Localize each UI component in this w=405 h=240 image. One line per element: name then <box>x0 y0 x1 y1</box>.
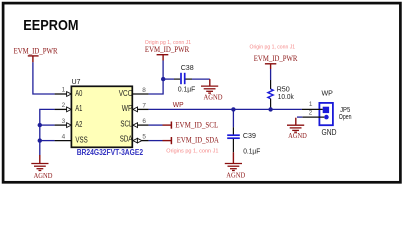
border frame <box>3 3 400 182</box>
svg-text:Origins pg 1, conn J1: Origins pg 1, conn J1 <box>166 149 218 155</box>
wire power to R50 <box>270 69 272 80</box>
svg-text:SCL: SCL <box>120 120 132 129</box>
wire pin4 to rail <box>40 140 55 142</box>
pin 1 A0 stub <box>55 87 83 98</box>
svg-text:WP: WP <box>322 88 333 97</box>
svg-text:EVM_ID_PWR: EVM_ID_PWR <box>145 45 190 54</box>
svg-text:0.1µF: 0.1µF <box>243 147 261 156</box>
svg-text:WP: WP <box>173 100 184 109</box>
svg-text:Open: Open <box>339 112 352 121</box>
power symbol EVM_ID_PWR (left) <box>28 56 39 62</box>
svg-text:1: 1 <box>62 87 66 94</box>
svg-text:EVM_ID_SCL: EVM_ID_SCL <box>175 121 218 130</box>
wire junction to C38 <box>163 78 174 80</box>
wire WP net (pin7 to JP5) <box>149 108 302 110</box>
wire power down / pin8 VCC <box>149 61 164 95</box>
wire power to pin1 A0 <box>33 62 55 94</box>
ground AGND (C39) <box>232 152 234 163</box>
svg-text:5: 5 <box>142 134 146 141</box>
wire junction to C39 <box>232 109 234 127</box>
svg-text:A1: A1 <box>75 104 82 113</box>
pin 4 VSS stub <box>55 133 88 144</box>
node junction pin4 rail <box>38 138 42 142</box>
svg-text:SDA: SDA <box>120 134 133 143</box>
svg-text:EVM_ID_PWR: EVM_ID_PWR <box>254 54 298 63</box>
svg-text:C38: C38 <box>181 63 194 72</box>
svg-text:3: 3 <box>62 118 66 125</box>
svg-text:BR24G32FVT-3AGE2: BR24G32FVT-3AGE2 <box>77 148 144 157</box>
svg-text:AGND: AGND <box>34 172 53 180</box>
offpage connector EVM_ID_SCL <box>149 121 219 130</box>
resistor R50 <box>268 80 294 109</box>
svg-text:1: 1 <box>309 101 313 108</box>
svg-text:EEPROM: EEPROM <box>23 17 78 34</box>
pin 2 A1 stub <box>55 102 83 113</box>
pin 3 A2 stub <box>55 118 83 129</box>
svg-text:Origin pg 1, conn J1: Origin pg 1, conn J1 <box>250 45 296 51</box>
node junction C38 tap <box>161 77 165 81</box>
pin 7 WP stub <box>122 103 149 114</box>
svg-text:10.0k: 10.0k <box>278 92 294 101</box>
svg-text:6: 6 <box>142 118 146 125</box>
svg-text:0.1µF: 0.1µF <box>178 84 196 93</box>
svg-text:AGND: AGND <box>204 94 223 102</box>
svg-text:2: 2 <box>62 102 66 109</box>
connector JP5 <box>319 88 351 137</box>
svg-text:C39: C39 <box>243 131 256 140</box>
svg-text:GND: GND <box>322 127 337 137</box>
capacitor C39 <box>227 127 261 156</box>
pin 1 lead JP5 <box>302 101 323 109</box>
svg-text:U7: U7 <box>72 79 81 86</box>
svg-text:VSS: VSS <box>75 135 87 144</box>
wire pin2 to ground rail <box>40 109 55 155</box>
power symbol EVM_ID_PWR (right) <box>265 64 276 69</box>
capacitor C38 <box>174 63 196 93</box>
svg-text:VCC: VCC <box>119 89 133 98</box>
svg-text:AGND: AGND <box>288 132 307 140</box>
wire pin3 to rail <box>40 124 55 126</box>
pin 5 SDA stub (bidirectional) <box>120 134 149 144</box>
svg-text:7: 7 <box>142 103 146 110</box>
svg-text:2: 2 <box>309 110 313 117</box>
ground AGND (left) <box>39 155 41 164</box>
ground AGND (C38) <box>209 79 211 86</box>
node junction R50 tap <box>268 107 272 111</box>
svg-text:A0: A0 <box>75 89 82 98</box>
ground AGND (JP5) <box>295 118 297 126</box>
svg-text:EVM_ID_SDA: EVM_ID_SDA <box>177 136 219 145</box>
power symbol EVM_ID_PWR (middle) <box>157 55 169 61</box>
pin 6 SCL stub <box>120 118 148 129</box>
svg-text:WP: WP <box>122 104 133 113</box>
svg-text:8: 8 <box>142 87 146 94</box>
pin 8 VCC stub <box>119 87 149 98</box>
node junction pin3 rail <box>38 123 42 127</box>
wire C38 to AGND <box>192 78 210 80</box>
node junction C39 tap <box>231 107 235 111</box>
IC U7 body <box>71 86 132 147</box>
pin 2 lead JP5 <box>297 110 324 118</box>
svg-text:A2: A2 <box>75 120 82 129</box>
svg-text:AGND: AGND <box>226 172 245 180</box>
svg-text:4: 4 <box>62 133 66 140</box>
offpage connector EVM_ID_SDA <box>149 136 220 145</box>
svg-text:EVM_ID_PWR: EVM_ID_PWR <box>14 46 58 55</box>
